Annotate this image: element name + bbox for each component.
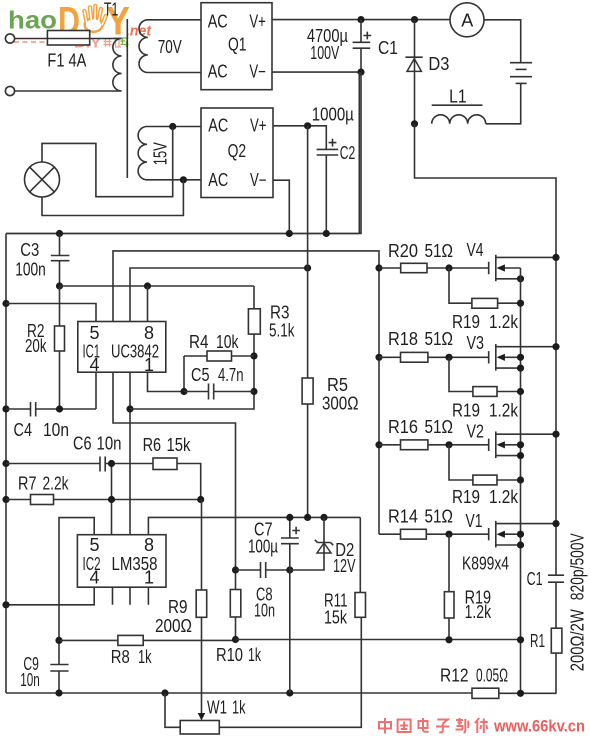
node R10 bottom at R8 wire <box>232 636 239 643</box>
wire IC1 pin2 down right to R10 line <box>113 372 236 589</box>
svg-text:15k: 15k <box>324 607 348 627</box>
svg-text:AC: AC <box>208 61 228 81</box>
svg-text:R20: R20 <box>388 241 418 261</box>
svg-text:www.66kv.cn: www.66kv.cn <box>493 717 585 735</box>
capacitor C8 <box>236 569 290 571</box>
svg-text:C1: C1 <box>527 569 543 589</box>
svg-text:15k: 15k <box>167 435 192 455</box>
node sense rail at source chain <box>517 636 524 643</box>
wire IC2 pin8 riser to rail <box>148 517 360 534</box>
node C6 rail left <box>2 460 9 467</box>
wire Q1 V- to C1 bottom <box>272 71 361 73</box>
svg-text:R19: R19 <box>452 312 480 332</box>
footer red text 中国电子制作 <box>379 718 488 734</box>
node V4 gate <box>445 264 452 271</box>
resistor R4 <box>184 355 254 357</box>
wire L1 node down and right to drain rail <box>415 124 557 575</box>
resistor R6 <box>153 458 177 470</box>
IC2 stub pins <box>113 587 149 605</box>
node V2 drain at rail <box>552 431 559 438</box>
svg-text:V−: V− <box>249 61 266 81</box>
svg-text:51Ω: 51Ω <box>425 329 454 349</box>
svg-text:1: 1 <box>144 568 154 588</box>
op-amp IC2 LM358 box <box>77 535 166 588</box>
node V2 source <box>517 452 524 459</box>
transformer T1 core <box>126 19 128 178</box>
node R19-V3 right <box>517 388 524 395</box>
svg-text:V+: V+ <box>250 116 267 136</box>
svg-text:1000µ: 1000µ <box>312 104 354 124</box>
node bottom bus source chain <box>517 690 524 697</box>
node feed R18 <box>375 354 382 361</box>
svg-text:R7: R7 <box>18 473 37 493</box>
battery GB <box>510 62 532 64</box>
node 15V-top lamp junction <box>169 123 176 130</box>
diode D3 <box>414 20 416 124</box>
resistor R19 (V4) <box>449 268 521 303</box>
svg-text:4.7n: 4.7n <box>218 365 244 385</box>
resistor R20 <box>379 267 489 269</box>
svg-text:C3: C3 <box>20 240 39 260</box>
wire IC1 pin1 to R4/C5 left node <box>148 372 185 391</box>
node C8 left <box>232 566 239 573</box>
source chain wire <box>520 268 522 693</box>
svg-text:200Ω: 200Ω <box>155 616 192 636</box>
svg-text:V1: V1 <box>466 511 483 531</box>
svg-text:200Ω/2W: 200Ω/2W <box>568 609 588 671</box>
svg-text:C2: C2 <box>340 143 356 163</box>
svg-text:C1: C1 <box>378 38 398 58</box>
node feed R16 <box>375 441 382 448</box>
resistor R9 <box>196 590 207 617</box>
bridge rectifier Q1 <box>201 3 272 90</box>
wire IC2 pin5 riser up-left and down x59 line <box>59 518 94 665</box>
node V1 arrow tap <box>517 531 524 538</box>
capacitor C9 <box>50 665 68 672</box>
svg-text:1.2k: 1.2k <box>465 602 492 622</box>
svg-text:R14: R14 <box>388 506 418 526</box>
svg-text:R18: R18 <box>388 329 418 349</box>
resistor R12 <box>472 688 499 698</box>
wire lamp top loop to 15V top node <box>42 127 173 197</box>
svg-text:100n: 100n <box>15 260 46 280</box>
svg-text:C6: C6 <box>73 433 92 453</box>
wire IC1 pin8 riser <box>147 286 149 322</box>
wire IC1 pin7 top riser to R5 <box>130 268 308 322</box>
wire top bus corner up to C1 bottom node <box>358 72 360 233</box>
svg-text:R19: R19 <box>452 487 480 507</box>
wire C1 bottom down to top bus corner <box>6 72 361 233</box>
capacitor C1 4700u <box>360 20 362 73</box>
node V2 arrow tap <box>517 441 524 448</box>
node R3/R4 junction <box>250 352 257 359</box>
svg-text:51Ω: 51Ω <box>425 417 454 437</box>
node R4/C5 right <box>250 388 257 395</box>
svg-text:2.2k: 2.2k <box>43 473 70 493</box>
svg-text:C4: C4 <box>14 420 33 440</box>
wire R4 left lead down <box>183 356 185 392</box>
logo haoDIY.net <box>8 0 152 51</box>
wire R7 rail <box>6 499 201 501</box>
node C8 right / C7 line <box>286 566 293 573</box>
node IC1 pin8 riser top <box>144 282 151 289</box>
svg-text:4: 4 <box>90 355 100 375</box>
node spine to IC1 pin5 <box>2 300 9 307</box>
node V3 arrow tap <box>517 354 524 361</box>
wire terminal1 to fuse <box>15 38 48 40</box>
node D3 top <box>411 16 418 23</box>
svg-text:10k: 10k <box>216 332 239 352</box>
capacitor C5 <box>184 391 254 393</box>
inductor L1 core bar <box>432 104 483 106</box>
wire R3 top lead <box>253 286 255 309</box>
node R6/R9 junction <box>197 496 204 503</box>
svg-text:5: 5 <box>90 535 100 555</box>
node bottom bus W1 left <box>161 689 168 696</box>
inductor L1 <box>432 115 486 124</box>
node IC1 pin3 at C4 rail <box>126 405 133 412</box>
node C4 rail left <box>2 405 9 412</box>
wire ammeter to battery <box>484 20 521 63</box>
capacitor C2 1000u <box>317 149 339 155</box>
transistor V2 <box>489 432 496 459</box>
node jumper at C6 rail <box>108 460 115 467</box>
wire C6 rail <box>6 463 153 465</box>
wire IC1 pin6 top riser to gate feed <box>113 251 379 322</box>
svg-text:V2: V2 <box>467 421 485 441</box>
node pin8 rail C7 <box>286 514 293 521</box>
transistor V3 <box>489 344 496 371</box>
svg-text:5: 5 <box>90 323 100 343</box>
resistor R19 (V2) <box>449 445 521 480</box>
svg-text:12V: 12V <box>333 556 356 576</box>
W1 wiper arrow <box>201 617 203 714</box>
node R7 rail left <box>2 496 9 503</box>
bridge rectifier Q2 <box>201 108 273 198</box>
svg-text:R9: R9 <box>168 597 188 617</box>
svg-text:20k: 20k <box>25 336 47 356</box>
svg-text:R6: R6 <box>143 435 162 455</box>
ammeter A <box>450 3 484 37</box>
wire IC2 jumper to C6 rail <box>111 464 113 535</box>
wire W1 right lead to R11 line <box>219 617 361 727</box>
svg-text:Q1: Q1 <box>228 35 247 55</box>
resistor R3 <box>248 309 260 334</box>
resistor R8 <box>59 639 236 641</box>
svg-text:1: 1 <box>144 355 154 375</box>
svg-text:V3: V3 <box>467 333 485 353</box>
node 15V-bottom junction <box>180 176 187 183</box>
node feed R20 <box>375 264 382 271</box>
transistor V1 <box>489 521 496 548</box>
node pin8 rail D2 <box>320 514 327 521</box>
input terminal 1 <box>5 34 14 43</box>
resistor R7 <box>31 495 54 505</box>
transformer T1 15V secondary winding <box>138 127 201 180</box>
resistor R18 <box>379 356 489 358</box>
svg-text:R12: R12 <box>440 665 469 685</box>
gate feed line <box>378 268 380 534</box>
op-amp IC1 UC3842 box <box>78 322 166 373</box>
svg-text:V−: V− <box>250 170 267 190</box>
resistor R11 <box>355 593 366 618</box>
svg-text:5.1k: 5.1k <box>269 320 295 340</box>
svg-text:1.2k: 1.2k <box>489 312 519 332</box>
node R19-V2 right <box>517 476 524 483</box>
capacitor C7 <box>289 517 291 693</box>
node C4 rail R2 bottom <box>56 405 63 412</box>
svg-text:300Ω: 300Ω <box>322 393 359 413</box>
svg-text:1k: 1k <box>248 645 262 665</box>
node V4 source <box>517 275 524 282</box>
node bottom bus C9 <box>55 689 62 696</box>
resistor R10 <box>230 590 241 618</box>
resistor R5 <box>307 126 309 518</box>
node top bus Q2 V- <box>286 230 293 237</box>
svg-text:10n: 10n <box>43 420 69 440</box>
svg-text:AC: AC <box>208 116 228 136</box>
resistor R19 (V1) vertical <box>448 534 450 640</box>
node V3 gate <box>445 354 452 361</box>
svg-text:51Ω: 51Ω <box>425 506 454 526</box>
potentiometer W1 <box>180 721 219 735</box>
svg-text:W1: W1 <box>207 697 227 717</box>
node V1 gate <box>445 531 452 538</box>
node R5 tap <box>304 264 311 271</box>
node C3 bottom / R2 top <box>56 282 63 289</box>
svg-text:4: 4 <box>90 568 100 588</box>
capacitor C4 <box>31 402 36 417</box>
svg-text:1.2k: 1.2k <box>489 487 519 507</box>
wire battery to L1 right <box>486 83 521 123</box>
svg-text:Q2: Q2 <box>228 141 247 161</box>
node R8 left <box>55 637 62 644</box>
svg-text:V4: V4 <box>467 240 484 260</box>
transformer T1 primary winding <box>15 39 122 92</box>
svg-text:K899x4: K899x4 <box>462 553 509 573</box>
node V1 drain at rail <box>552 520 559 527</box>
svg-text:0.05Ω: 0.05Ω <box>476 665 508 685</box>
node V1 source <box>517 541 524 548</box>
wire spine to IC1 pin5 <box>6 304 96 322</box>
node C1 bottom <box>357 69 364 76</box>
node V4 drain at rail <box>552 254 559 261</box>
node L1 left / D3 bottom <box>411 120 418 127</box>
wire C4 rail <box>6 392 254 410</box>
capacitor C3 <box>59 234 61 287</box>
fuse F1 <box>47 31 89 46</box>
svg-text:A: A <box>461 10 473 30</box>
node top bus C2 <box>323 230 330 237</box>
node R5 feed at Q2 V+ <box>304 122 311 129</box>
svg-text:R19: R19 <box>452 401 480 421</box>
svg-text:C5: C5 <box>191 365 210 385</box>
resistor R14 <box>379 533 489 535</box>
svg-text:51Ω: 51Ω <box>425 241 454 261</box>
node pin8 rail R5 <box>304 514 311 521</box>
node V3 drain at rail <box>552 343 559 350</box>
resistor R2 <box>59 286 61 409</box>
svg-text:10n: 10n <box>254 600 275 620</box>
svg-text:R4: R4 <box>189 332 209 352</box>
svg-text:R10: R10 <box>216 645 243 665</box>
svg-text:1.2k: 1.2k <box>489 401 519 421</box>
resistor R16 <box>379 444 489 446</box>
svg-text:T1: T1 <box>104 0 119 19</box>
node C1 top <box>357 16 364 23</box>
wire lamp bottom loop to 15V bottom node <box>42 180 183 216</box>
left spine wire <box>5 234 7 694</box>
svg-text:R5: R5 <box>327 375 348 395</box>
svg-text:8: 8 <box>144 535 154 555</box>
zener diode D2 <box>290 517 324 570</box>
svg-text:AC: AC <box>208 12 228 32</box>
resistor R19 (V3) <box>449 357 521 391</box>
svg-text:R8: R8 <box>111 647 130 667</box>
wire IC1 pin4 down to C4 rail <box>95 372 97 409</box>
capacitor C1 820p <box>548 575 564 582</box>
node spine at pin4 wire <box>2 601 9 608</box>
node R4/C5 left <box>180 388 187 395</box>
svg-text:R1: R1 <box>530 631 545 651</box>
node V2 gate <box>445 441 452 448</box>
top bus wire <box>6 233 359 235</box>
resistor R1 <box>551 628 562 653</box>
svg-text:10n: 10n <box>20 670 40 690</box>
svg-text:8: 8 <box>144 323 154 343</box>
svg-text:100µ: 100µ <box>248 536 278 556</box>
svg-text:820p/500V: 820p/500V <box>568 533 588 600</box>
wire node to IC1 pin8 riser <box>60 285 255 287</box>
wire W1 left leg <box>165 693 180 727</box>
node jumper at R7 rail <box>108 496 115 503</box>
svg-text:1k: 1k <box>138 647 152 667</box>
capacitor C6 <box>100 457 105 472</box>
wire Q2 V- down to top bus <box>273 180 289 233</box>
svg-text:V+: V+ <box>249 12 266 32</box>
node top bus C3 <box>56 230 63 237</box>
node bottom bus C7 line <box>286 689 293 696</box>
transformer T1 70V secondary winding <box>139 20 201 73</box>
lamp HL <box>25 162 60 197</box>
node R19-V4 right <box>517 300 524 307</box>
node V3 source <box>517 365 524 372</box>
svg-text:R16: R16 <box>388 417 418 437</box>
wire R3 bottom to R4/C5 right node <box>253 334 255 391</box>
wire IC2 pin4 down-left to spine <box>6 587 94 605</box>
svg-text:15V: 15V <box>151 142 171 165</box>
wire IC1 pin3 down to IC2 <box>129 372 131 535</box>
input terminal 2 <box>5 86 14 95</box>
wire R8 rail to V1 R19 <box>236 639 521 641</box>
svg-text:10n: 10n <box>97 433 122 453</box>
svg-text:F1 4A: F1 4A <box>47 51 86 71</box>
svg-text:AC: AC <box>208 170 228 190</box>
transistor V4 <box>489 255 496 282</box>
node R19-V1 bottom <box>445 636 452 643</box>
wire Q2 V+ to C2 <box>273 126 326 150</box>
svg-text:R3: R3 <box>270 302 290 322</box>
svg-text:D3: D3 <box>428 54 449 74</box>
wire Q1 V+ to C1/D3/ammeter <box>272 19 450 21</box>
bottom bus wire <box>6 692 557 694</box>
svg-text:70V: 70V <box>158 37 182 57</box>
svg-text:1k: 1k <box>232 697 246 717</box>
svg-text:L1: L1 <box>449 87 467 107</box>
svg-text:100V: 100V <box>310 43 339 63</box>
